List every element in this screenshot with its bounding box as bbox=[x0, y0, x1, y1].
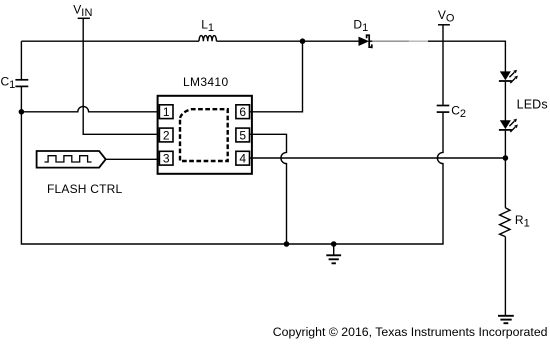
svg-text:2: 2 bbox=[163, 128, 170, 142]
svg-text:LEDs: LEDs bbox=[517, 97, 548, 111]
svg-text:6: 6 bbox=[239, 105, 246, 119]
svg-text:5: 5 bbox=[239, 128, 246, 142]
svg-text:FLASH CTRL: FLASH CTRL bbox=[47, 182, 122, 196]
svg-text:1: 1 bbox=[163, 105, 170, 119]
svg-text:4: 4 bbox=[239, 152, 246, 166]
svg-text:LM3410: LM3410 bbox=[183, 75, 228, 89]
svg-text:3: 3 bbox=[163, 152, 170, 166]
svg-text:Copyright © 2016, Texas Instru: Copyright © 2016, Texas Instruments Inco… bbox=[273, 325, 548, 339]
